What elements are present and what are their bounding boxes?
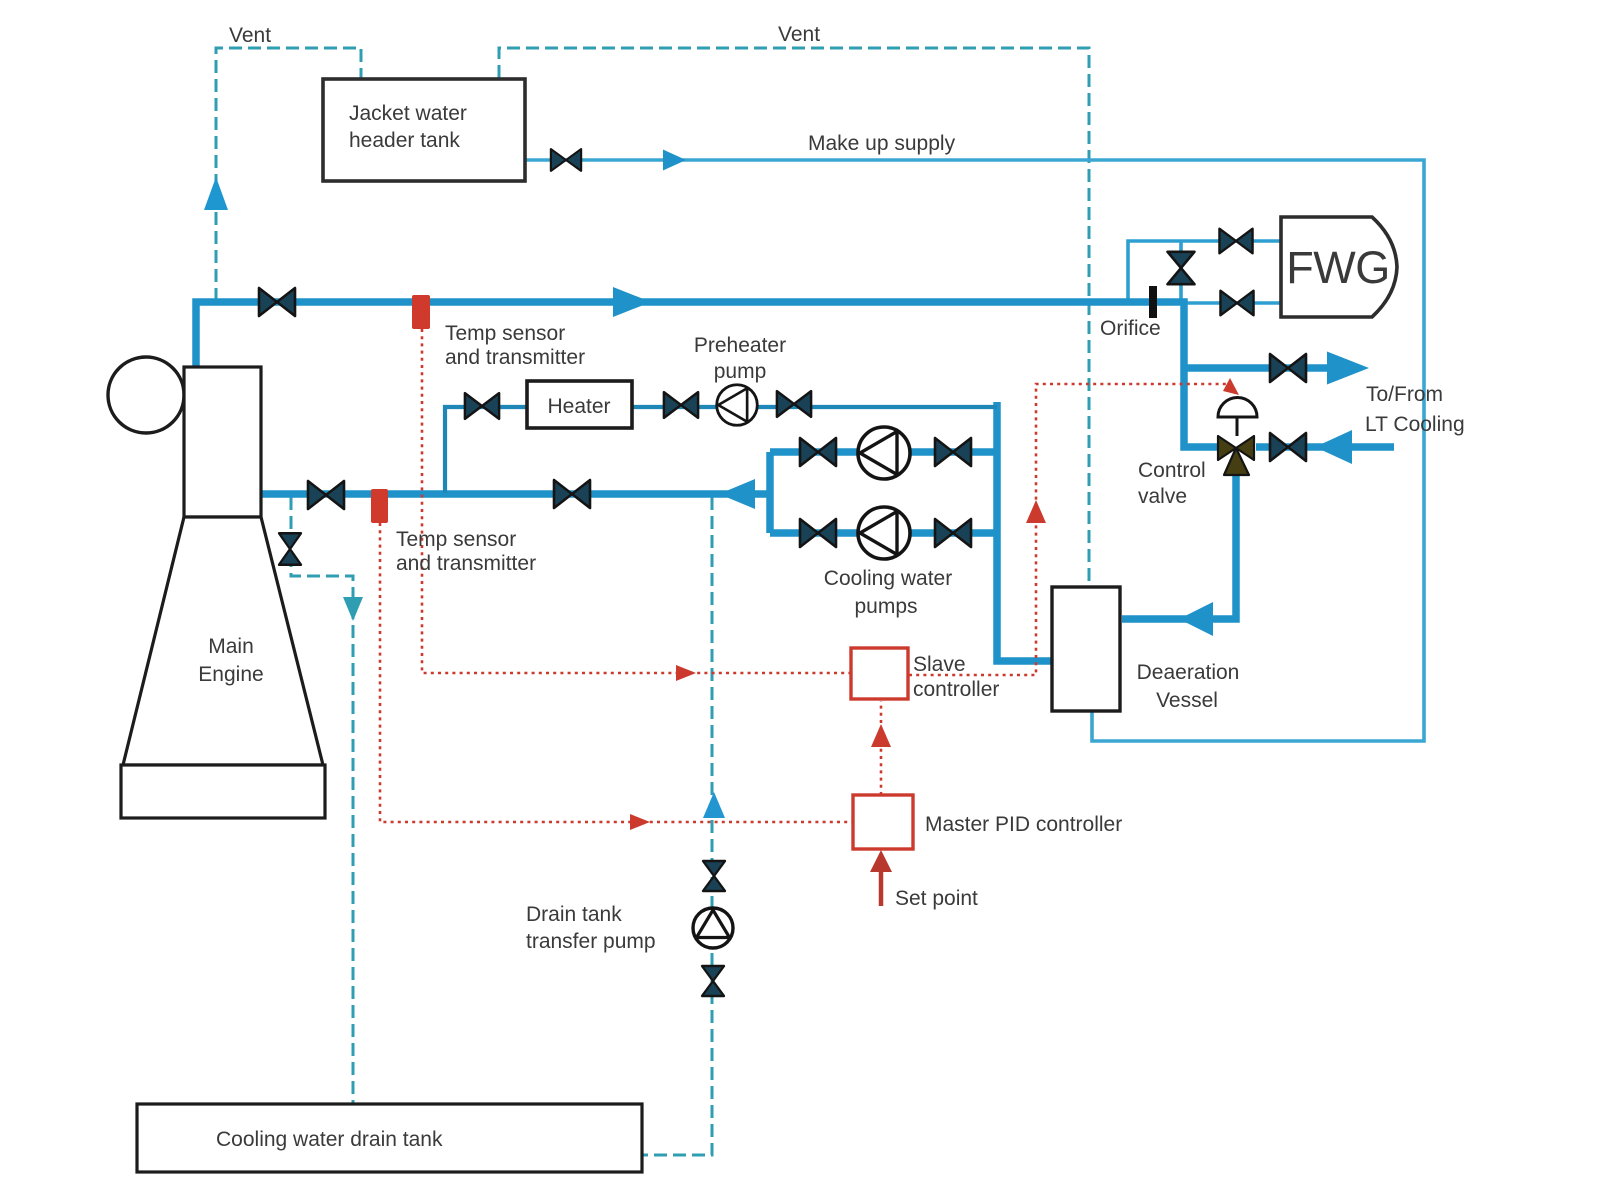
- wire: vent arrow up: [204, 177, 228, 210]
- wire: arrow master to slave: [871, 724, 891, 747]
- wire: main return line from engine inlet to pumps: [261, 452, 997, 533]
- wire: vent line from header tank top right across to deaeration vessel: [499, 48, 1089, 586]
- wire: make up supply line from header tank to deaeration vessel bottom: [525, 160, 1424, 741]
- valve FWG top: [1219, 229, 1252, 254]
- svg-text:Vessel: Vessel: [1156, 689, 1218, 712]
- valve after preheater pump: [777, 391, 811, 417]
- pump: preheater pump: [717, 385, 758, 426]
- svg-text:controller: controller: [913, 678, 999, 701]
- wire: flow arrow on HT outlet line: [613, 287, 651, 317]
- wire: temp sensor 2 signal line to master controller: [380, 523, 852, 822]
- svg-text:Vent: Vent: [229, 24, 271, 47]
- svg-text:valve: valve: [1138, 485, 1187, 508]
- wire: control valve outlet down to deaeration vessel: [1122, 465, 1236, 619]
- wire: signal arrowhead at control valve actuator: [1223, 378, 1239, 395]
- Deaeration Vessel: [1052, 587, 1120, 711]
- pump: cooling water pump 1: [858, 427, 910, 479]
- wire: vent line from main engine outlet up and to header tank: [216, 48, 361, 301]
- wire: From LT cooling arrow: [1315, 430, 1352, 464]
- svg-text:and transmitter: and transmitter: [396, 552, 536, 575]
- svg-text:Deaeration: Deaeration: [1137, 661, 1240, 684]
- Main Engine turbocharger circle: [108, 357, 184, 433]
- svg-text:Main: Main: [208, 635, 254, 658]
- wire: signal arrow to master controller: [630, 814, 650, 830]
- valve heater line inlet: [465, 393, 499, 419]
- tank: Jacket water header tank: [323, 79, 525, 181]
- wire: slave controller output to control valve: [909, 384, 1230, 675]
- valve FWG bypass vertical: [1168, 252, 1195, 284]
- Slave controller box: [851, 648, 908, 699]
- wire: FWG bypass vertical with valve: [1179, 241, 1183, 301]
- valve pump branch 2 suction: [800, 519, 836, 547]
- control valve body (3-way): [1218, 436, 1254, 475]
- wire: master to slave signal line: [880, 701, 883, 795]
- orifice plate: [1149, 286, 1157, 318]
- wire: set point input arrow: [879, 866, 884, 906]
- wire: make up supply arrow: [663, 150, 686, 171]
- wire: FWG top loop line: [1128, 241, 1281, 301]
- svg-text:To/From: To/From: [1366, 383, 1443, 406]
- svg-text:Cooling water drain tank: Cooling water drain tank: [216, 1128, 443, 1151]
- wire: signal arrow to slave controller: [676, 665, 696, 681]
- wire: FWG bottom port line: [1184, 301, 1281, 305]
- svg-text:Drain tank: Drain tank: [526, 903, 622, 926]
- svg-text:LT Cooling: LT Cooling: [1365, 413, 1465, 436]
- Main Engine base: [121, 765, 325, 818]
- Heater box: [527, 381, 632, 428]
- wire: From LT cooling line into control valve: [1256, 443, 1394, 451]
- svg-text:Slave: Slave: [913, 653, 966, 676]
- valve engine inlet: [308, 481, 344, 509]
- svg-text:Engine: Engine: [198, 663, 263, 686]
- valve on make up supply: [551, 149, 581, 171]
- svg-text:transfer pump: transfer pump: [526, 930, 656, 953]
- wire: drain arrow down: [343, 597, 363, 621]
- pump: drain tank transfer pump: [693, 908, 733, 948]
- svg-text:Jacket water: Jacket water: [349, 102, 467, 125]
- wire: signal arrow up on control valve line: [1026, 500, 1046, 523]
- Master PID controller box: [853, 795, 913, 849]
- svg-text:Orifice: Orifice: [1100, 317, 1161, 340]
- valve pump branch 1 suction: [800, 438, 836, 466]
- wire: temp sensor 1 signal line to slave controller: [422, 329, 850, 673]
- tank: Cooling water drain tank: [137, 1104, 642, 1172]
- svg-text:Temp sensor: Temp sensor: [445, 322, 565, 345]
- svg-text:Master PID controller: Master PID controller: [925, 813, 1122, 836]
- wire: heater preheater line: [445, 407, 997, 493]
- wire: arrow into deaeration vessel: [1179, 602, 1213, 636]
- wire: To LT cooling arrow: [1327, 352, 1369, 385]
- svg-text:Vent: Vent: [778, 23, 820, 46]
- wire: branch to LT cooling out: [1184, 364, 1330, 372]
- valve transfer pump suction: [703, 861, 725, 891]
- Main Engine upper body: [184, 367, 261, 517]
- valve on return line: [554, 480, 590, 508]
- svg-text:Temp sensor: Temp sensor: [396, 528, 516, 551]
- valve pump branch 2 discharge: [935, 519, 971, 547]
- wire: flow arrow toward engine: [719, 479, 755, 509]
- FWG vessel: [1281, 217, 1397, 317]
- Main Engine funnel body: [123, 517, 323, 765]
- wire: engine drain dashed line to drain tank: [291, 497, 353, 1103]
- svg-text:Make up supply: Make up supply: [808, 132, 956, 155]
- pump: cooling water pump 2: [858, 507, 910, 559]
- wire: drain tank transfer pump dashed line up to main line: [643, 497, 712, 1155]
- svg-text:Cooling water: Cooling water: [824, 567, 952, 590]
- valve FWG bottom: [1220, 291, 1253, 316]
- valve on HT outlet line: [259, 288, 295, 316]
- svg-text:Heater: Heater: [547, 395, 610, 418]
- wire: transfer line arrow up: [703, 792, 725, 818]
- svg-text:FWG: FWG: [1286, 242, 1389, 293]
- control valve actuator dome: [1218, 398, 1257, 418]
- valve transfer pump discharge: [702, 966, 724, 996]
- valve heater line after heater: [664, 392, 698, 418]
- svg-text:pump: pump: [714, 360, 767, 383]
- valve on LT cooling in line: [1270, 433, 1306, 461]
- svg-text:header tank: header tank: [349, 129, 460, 152]
- temp sensor 1: [412, 295, 430, 329]
- valve engine drain: [279, 533, 301, 565]
- valve on LT cooling out branch: [1270, 354, 1306, 382]
- svg-text:Set point: Set point: [895, 887, 978, 910]
- svg-text:and transmitter: and transmitter: [445, 346, 585, 369]
- wire: main HT outlet line from engine top to FWG corner: [196, 302, 1220, 447]
- svg-text:pumps: pumps: [854, 595, 917, 618]
- temp sensor 2: [371, 489, 388, 523]
- valve pump branch 1 discharge: [935, 438, 971, 466]
- wire: pump suction line from deaeration vessel: [997, 402, 1053, 661]
- svg-text:Control: Control: [1138, 459, 1206, 482]
- svg-text:Preheater: Preheater: [694, 334, 786, 357]
